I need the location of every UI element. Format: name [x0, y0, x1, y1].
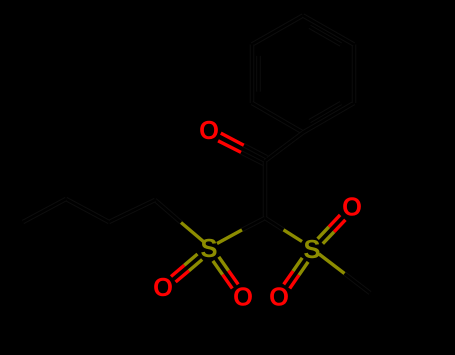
bond central C to right S [265, 218, 302, 242]
butyl chain C3-C4 [23, 199, 66, 222]
S=O double bond (right S, upper-right O) [318, 215, 346, 244]
benzene ring (phenyl) [252, 16, 354, 133]
svg-text:O: O [269, 284, 289, 312]
S=O double bond (left S, lower-left O) [171, 254, 202, 282]
svg-text:O: O [199, 117, 219, 145]
butyl chain C1-C2 [109, 200, 155, 222]
bond central C to left S [217, 218, 265, 244]
svg-text:O: O [233, 284, 253, 312]
butyl chain C2-C3 [66, 199, 109, 222]
carbonyl C=O double bond to O [218, 133, 267, 164]
svg-text:O: O [342, 194, 362, 222]
bond carbonyl C to central C [263, 161, 268, 218]
svg-text:O: O [153, 274, 173, 302]
S=O double bond (right S, lower-left O) [284, 258, 308, 289]
bond left S to butyl C1 [155, 200, 204, 242]
S=O double bond (left S, lower-right O) [213, 257, 238, 289]
svg-text:S: S [303, 236, 320, 264]
bond ipso-C to carbonyl C [265, 133, 303, 162]
bond right S to methyl C [319, 254, 370, 293]
